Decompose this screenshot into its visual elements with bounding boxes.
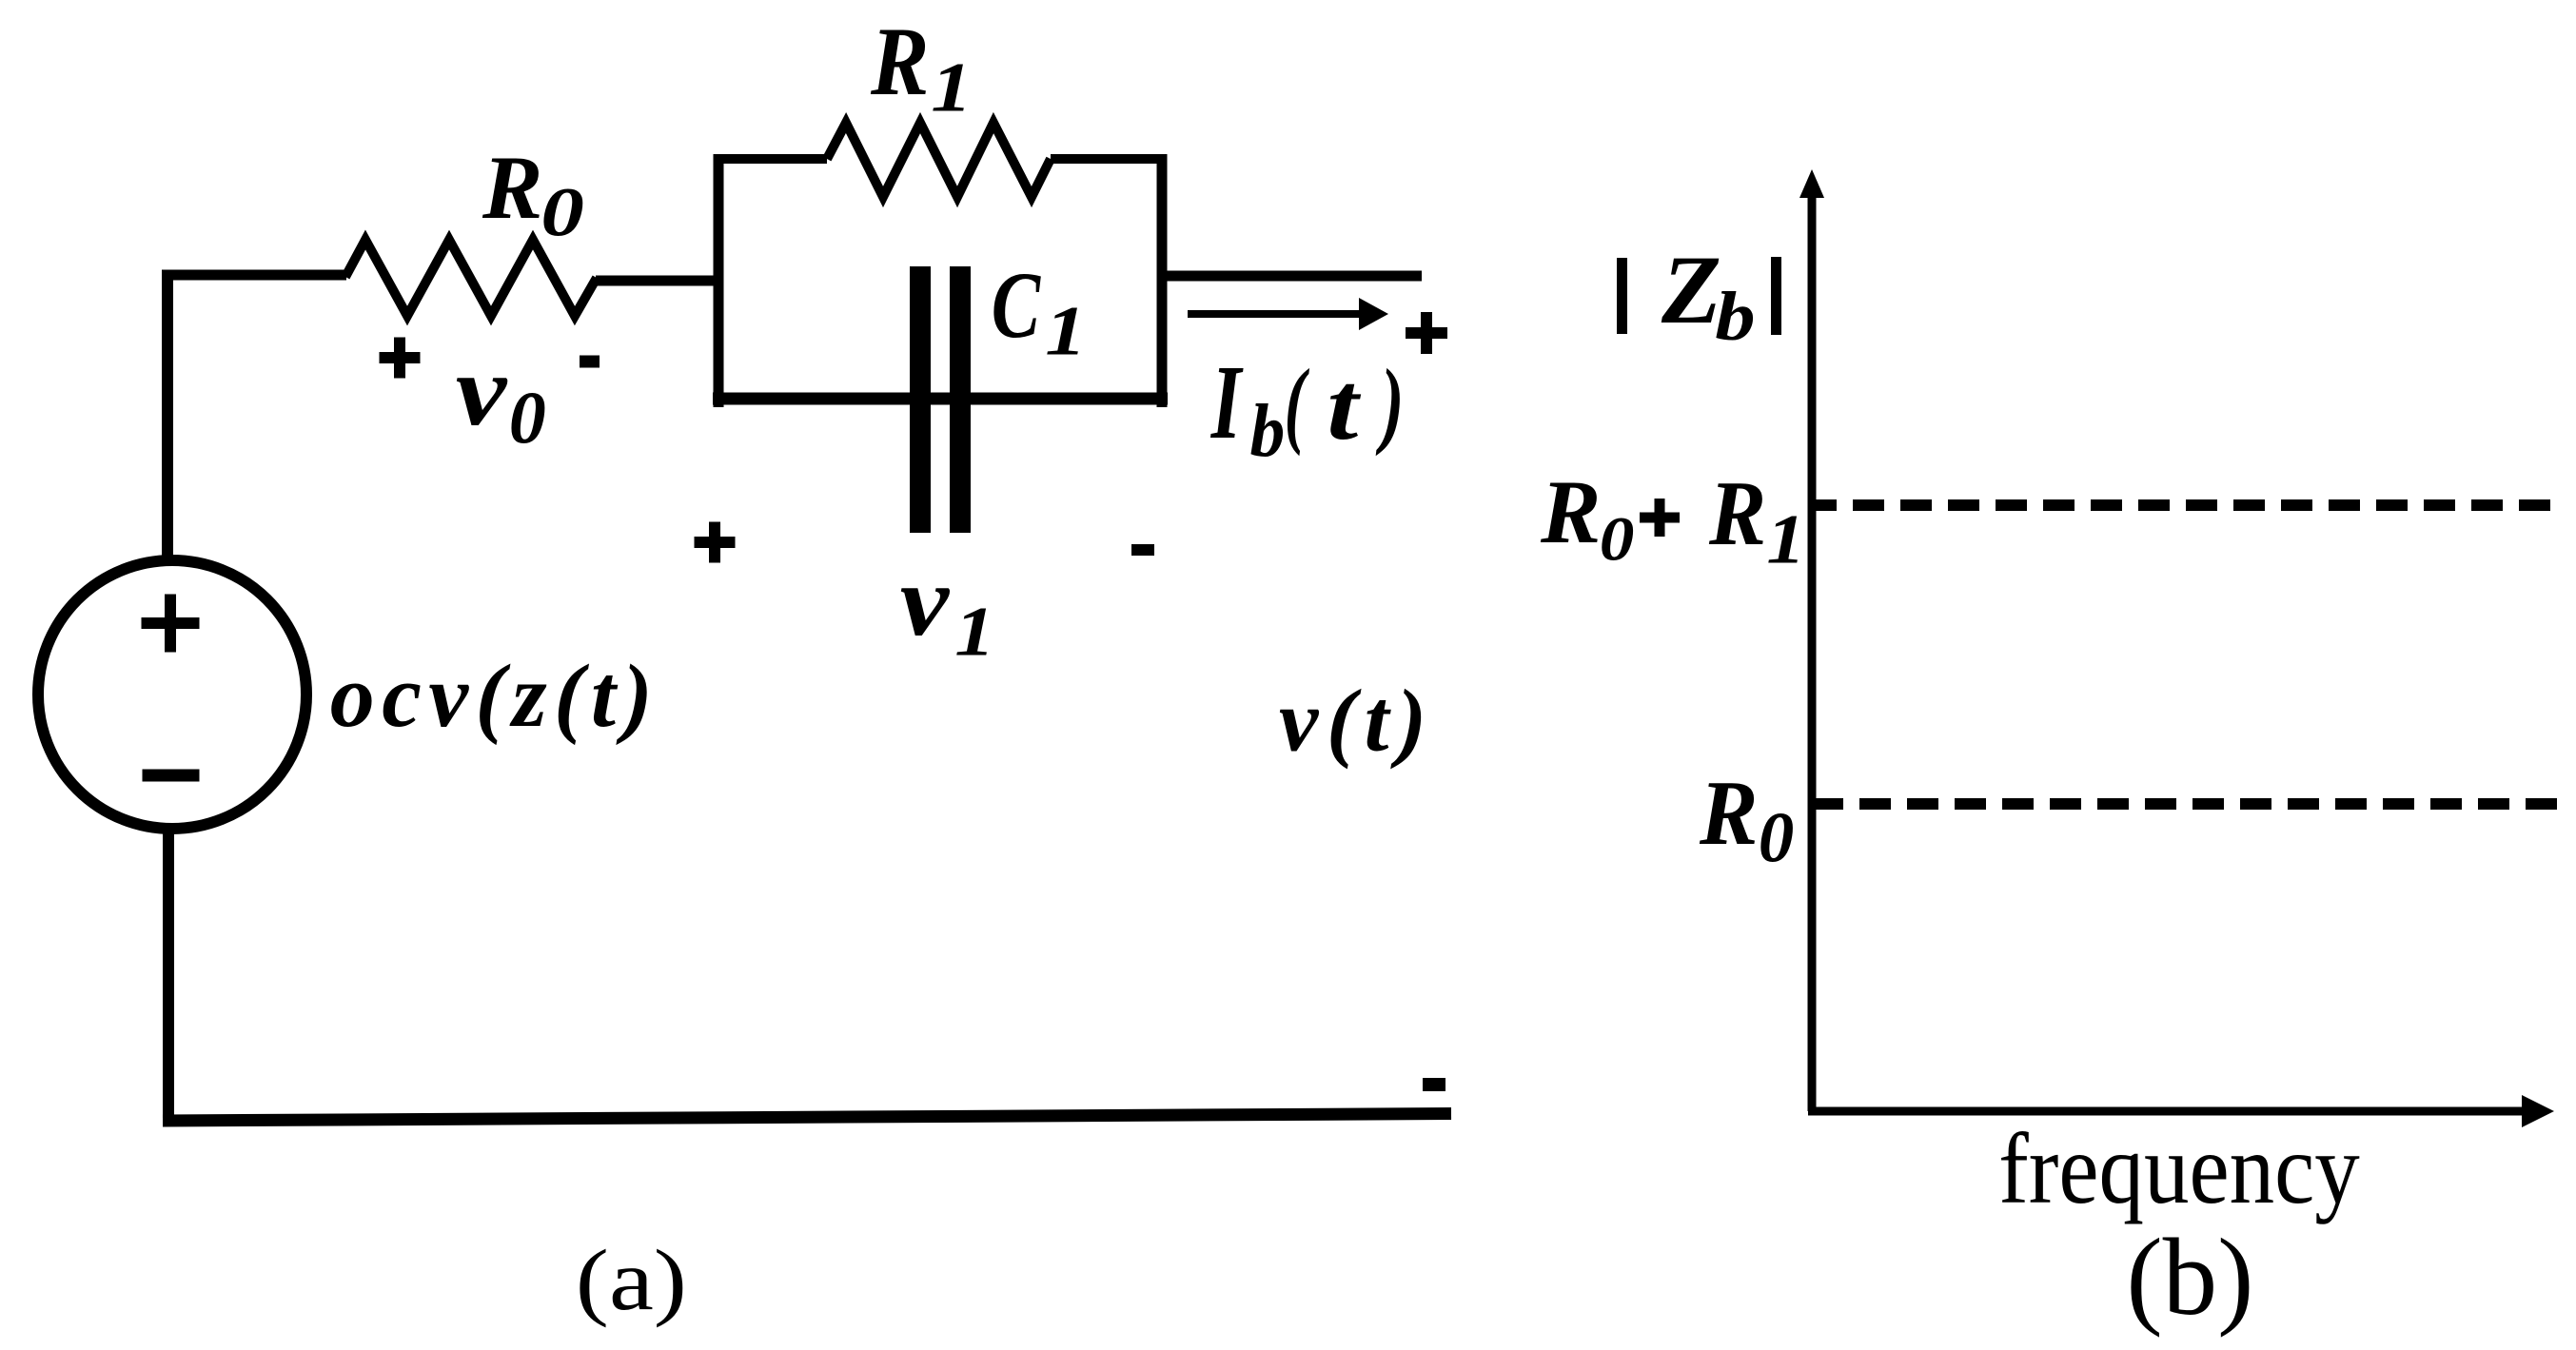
svg-text:t: t [1327,353,1361,460]
svg-text:1: 1 [954,593,994,671]
svg-text:v(t): v(t) [1279,672,1435,770]
svg-text:(a): (a) [576,1232,687,1328]
svg-text:I: I [1210,344,1244,461]
svg-text:R: R [870,8,929,116]
svg-text:v: v [456,335,508,447]
svg-text:1: 1 [1766,500,1805,578]
svg-text:ocv(z(t): ocv(z(t) [330,647,659,746]
svg-text:R: R [482,137,542,238]
svg-text:R: R [1540,461,1601,562]
svg-text:Z: Z [1661,236,1721,344]
svg-text:v: v [900,544,951,656]
svg-text:1: 1 [931,49,972,127]
svg-text:0: 0 [1759,798,1795,877]
svg-text:1: 1 [1045,292,1086,370]
svg-text:C: C [992,252,1042,358]
svg-text:frequency: frequency [1998,1112,2360,1224]
svg-text:b: b [1250,389,1286,473]
svg-text:b: b [1715,279,1755,355]
svg-text:(b): (b) [2126,1217,2253,1338]
svg-text:0: 0 [509,376,546,459]
svg-text:R: R [1708,462,1766,565]
svg-text:R: R [1699,760,1758,864]
svg-text:0: 0 [1600,505,1635,575]
svg-text:0: 0 [541,173,584,250]
